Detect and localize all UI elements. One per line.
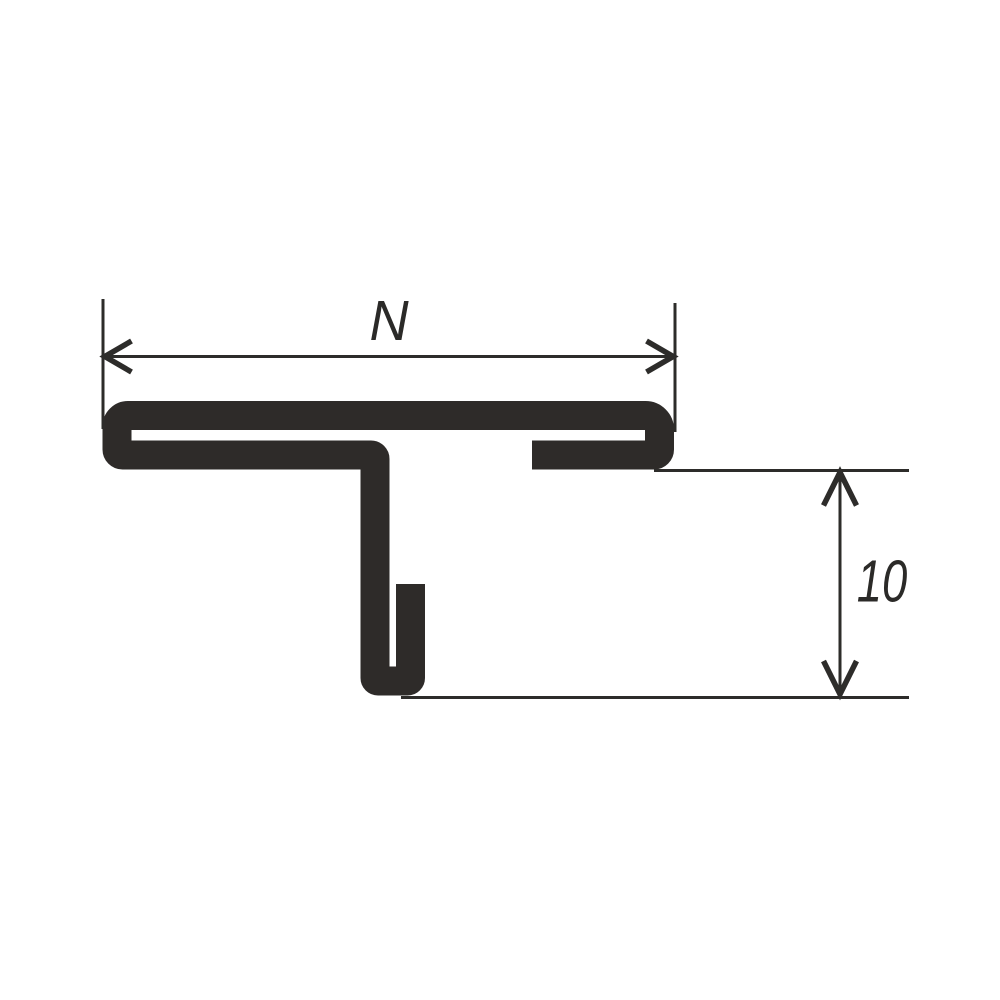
extension line left (N): [102, 299, 105, 429]
dimension line N: [105, 355, 674, 358]
arrowhead 10 top: [824, 472, 857, 505]
arrowhead N right: [647, 341, 674, 372]
svg-text:10: 10: [857, 549, 908, 615]
folded sheet-metal profile: [117, 416, 660, 682]
arrowhead N left: [105, 341, 132, 372]
arrowhead 10 bottom: [824, 661, 857, 694]
extension line right (N): [674, 303, 677, 432]
extension line top (10): [654, 469, 909, 472]
svg-text:N: N: [369, 289, 409, 353]
extension line bottom (10): [401, 696, 909, 699]
dimension line 10: [839, 472, 842, 694]
